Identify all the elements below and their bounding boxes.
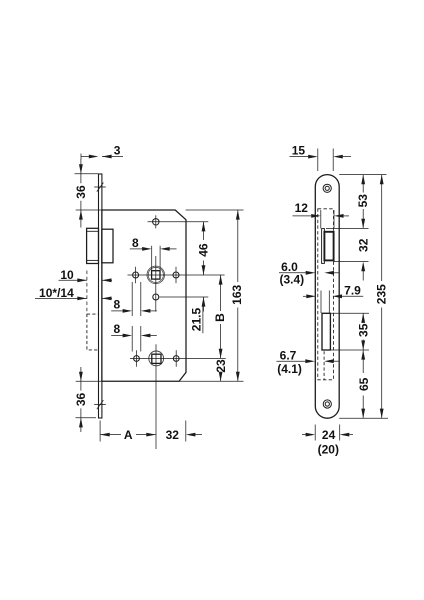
latch face front view: [324, 232, 333, 261]
svg-text:7.9: 7.9: [344, 284, 361, 298]
dim 7.9 underline: [342, 295, 363, 297]
plate edge screw mark bottom (slash): [97, 400, 104, 409]
svg-text:163: 163: [230, 284, 244, 304]
dim 10*/14 opposite line: [102, 297, 112, 299]
lower follower circle: [149, 351, 164, 366]
svg-text:A: A: [124, 428, 133, 442]
dim 163 line upper: [237, 210, 239, 282]
dim 8l arrow right-pointing: [123, 334, 133, 338]
lower follower vertical centerline extended to A dim: [155, 344, 157, 449]
dim 7.9 arrow left-pointing: [332, 294, 342, 298]
ext plate bottom: [339, 417, 388, 419]
dim 46 arrow up: [202, 222, 206, 232]
dim 15 line left: [290, 156, 309, 158]
ext 7.9 left: [320, 291, 322, 314]
underline of 21.5: [202, 306, 204, 334]
dim 36b line lower segment: [80, 408, 82, 417]
upper follower inner circle: [148, 267, 163, 282]
latch bevel strip front view: [322, 229, 325, 264]
dim 12 line left: [293, 215, 312, 217]
dim 15 arrow left-pointing: [333, 155, 343, 159]
ext 24 right tick: [339, 425, 341, 441]
dim 6.0 line right: [334, 272, 339, 274]
dim 6.0 arrow right-pointing: [306, 271, 316, 275]
lower hole horizontal ext for 21.5: [159, 296, 208, 298]
dim 6.0 arrow left-pointing: [324, 271, 334, 275]
dim 36t arrow down: [79, 164, 83, 174]
dim 36b line upper segment: [80, 381, 82, 390]
dim 6.7 arrow left-pointing: [324, 359, 334, 363]
dim 235 line lower: [381, 308, 383, 419]
faceplate front view outline: [315, 175, 339, 419]
dim 46 line lower: [203, 261, 205, 275]
dim 8l line right: [150, 335, 156, 337]
dim 12 line right: [344, 215, 349, 217]
svg-text:10*/14: 10*/14: [39, 286, 74, 300]
dim 6.7 arrow right-pointing: [305, 359, 315, 363]
dim 8t arrow right-pointing: [142, 247, 152, 251]
case bottom ext left: [76, 380, 102, 382]
lock case hidden dashed front view: [318, 209, 334, 380]
dim 21.5 arrow up: [202, 297, 206, 307]
svg-text:8: 8: [113, 322, 120, 336]
deadbolt slot front view: [322, 313, 330, 350]
svg-text:53: 53: [356, 194, 370, 208]
dim 65 arrow down: [361, 409, 365, 419]
latch bolt head outside plate: [87, 228, 99, 263]
ext plate centerline bottom: [99, 421, 101, 442]
dim 36b arrow up: [79, 418, 83, 428]
svg-text:21.5: 21.5: [189, 307, 203, 331]
svg-text:10: 10: [60, 268, 74, 282]
case top ext left: [76, 209, 102, 211]
dim A arrow left: [100, 433, 110, 437]
dim A arrow right: [146, 433, 156, 437]
dim 65 arrow up: [361, 350, 365, 360]
dim 3 line right: [102, 156, 123, 158]
dim 10*/14 opposite arrow: [102, 297, 112, 301]
top hole horizontal centerline / ext for 46: [148, 221, 209, 223]
plate edge screw mark top (slash): [97, 183, 104, 192]
ext 12 right: [333, 210, 335, 228]
dim 8m line right: [150, 310, 156, 312]
dim A line left: [100, 434, 121, 436]
dim 235 arrow down: [380, 409, 384, 419]
dim 8t line right: [170, 248, 177, 250]
case bottom ext right: [179, 380, 244, 382]
upper right hole vertical tick: [175, 267, 177, 283]
8mm slot line pair2 right: [140, 326, 142, 352]
dim 32 lower tail: [362, 271, 364, 281]
top fixing hole: [153, 219, 159, 225]
dim 3 line left: [81, 156, 89, 158]
ext line plate top: [75, 173, 99, 175]
dim 8m arrow left-pointing: [141, 309, 151, 313]
latch bolt body inside case: [102, 229, 113, 263]
dim 6.7 leader line: [277, 360, 306, 362]
top hole vertical centerline: [155, 215, 157, 228]
dim 10 arrow right: [77, 278, 87, 282]
dim 10*/14 leader line: [35, 297, 87, 299]
dim 35 arrow down: [361, 340, 365, 350]
dim 21.5 tail: [203, 297, 205, 312]
svg-text:235: 235: [374, 284, 388, 304]
8mm slot line pair1 left: [131, 282, 133, 316]
ext latch top: [326, 227, 369, 229]
dim 24 arrow left-pointing: [340, 433, 350, 437]
dim 6.7 line right: [334, 360, 339, 362]
dim 36t line upper segment: [80, 174, 82, 183]
ext 8sq right: [159, 246, 161, 271]
lower left hole vertical tick: [136, 350, 138, 367]
upper right fixing hole: [173, 272, 179, 278]
dim 12 arrow left-pointing: [334, 214, 344, 218]
latch head bevel line top: [87, 230, 99, 232]
dim 8t arrow left-pointing: [160, 247, 170, 251]
dim 8m arrow right-pointing: [123, 309, 133, 313]
plate edge screw mark top (cross line): [94, 186, 106, 188]
dim 46 line upper: [203, 222, 205, 240]
ext latch bottom: [334, 261, 369, 263]
dim 36b arrow down: [79, 372, 83, 382]
ext dashed line latch face: [86, 271, 88, 314]
svg-text:12: 12: [295, 201, 309, 215]
faceplate edge view (3mm strip): [99, 174, 102, 418]
dim B arrow down: [219, 349, 223, 359]
dim 163 line lower: [237, 308, 239, 382]
top screw hole outer: [323, 184, 331, 192]
lower right hole vertical tick: [175, 350, 177, 367]
8mm slot line pair2 left: [131, 326, 133, 352]
dim 10 leader line: [59, 279, 87, 281]
dim 8l line left: [111, 335, 122, 337]
lock case outline with chamfered right corners: [102, 210, 186, 381]
dim 65 line upper: [362, 350, 364, 373]
ext 15 left: [317, 149, 319, 172]
dim 8l arrow left-pointing: [141, 334, 151, 338]
upper left hole vertical tick: [135, 267, 137, 283]
dim 23 line lower: [220, 373, 222, 381]
lower follower horizontal centerline / ext for B-23: [130, 357, 226, 359]
dim 6.0 leader line: [279, 272, 306, 274]
svg-text:46: 46: [197, 243, 211, 257]
dim 35 line lower: [362, 340, 364, 351]
deadbolt hidden dashed line: [323, 351, 325, 379]
deadbolt thrown position dashed: [87, 314, 99, 350]
dim 36b lower tail: [80, 418, 82, 432]
svg-text:35: 35: [357, 323, 371, 337]
svg-text:8: 8: [132, 236, 139, 250]
dim 8t line left: [130, 248, 142, 250]
svg-text:24: 24: [322, 428, 336, 442]
dim 163 arrow up: [236, 210, 240, 220]
svg-text:36: 36: [74, 185, 88, 199]
lower follower square: [152, 354, 161, 363]
dim 15 line right: [343, 156, 351, 158]
dim 24 line left: [302, 434, 306, 436]
svg-text:(3.4): (3.4): [279, 273, 304, 287]
dim 35 arrow up: [361, 313, 365, 323]
dim 235 arrow up: [380, 175, 384, 185]
dim 8m line left: [111, 310, 122, 312]
dim 3 arrow left: [89, 155, 99, 159]
top screw hole inner: [325, 186, 329, 190]
svg-text:32: 32: [357, 238, 371, 252]
svg-text:(4.1): (4.1): [277, 362, 302, 376]
dim 32 outside arrow: [186, 433, 196, 437]
lower left fixing hole: [134, 356, 140, 362]
dim 24 line right: [349, 434, 353, 436]
svg-text:15: 15: [292, 143, 306, 157]
bottom screw hole outer: [323, 400, 331, 408]
ext slot bottom: [330, 349, 369, 351]
dim 46 arrow down: [202, 265, 206, 275]
dim 10 opposite line: [102, 279, 112, 281]
dim 163 arrow down: [236, 372, 240, 382]
latch head bevel line bottom: [87, 259, 99, 261]
dim 36b upper tail: [80, 367, 82, 381]
ext case right edge bottom: [185, 421, 187, 442]
dim B line lower: [220, 324, 222, 358]
dim B arrow up: [219, 275, 223, 285]
svg-text:36: 36: [74, 393, 88, 407]
svg-text:23: 23: [214, 359, 228, 373]
upper follower outer circle: [147, 266, 165, 284]
bottom screw hole inner: [325, 402, 329, 406]
svg-text:32: 32: [166, 428, 180, 442]
dim 53 line upper: [362, 175, 364, 193]
dim 15 arrow right-pointing: [308, 155, 318, 159]
upper left fixing hole: [133, 272, 139, 278]
ext 24 left tick: [314, 425, 316, 441]
dim 36t line lower segment: [80, 201, 82, 210]
hole below upper follower: [153, 294, 159, 300]
dim 32 arrow up from below: [361, 262, 365, 272]
8mm slot line pair1 right: [140, 282, 142, 316]
dim 10*/14 arrow right: [77, 297, 87, 301]
svg-text:3: 3: [114, 144, 121, 158]
dim 7.9 arrow right-pointing: [306, 294, 316, 298]
case top ext right: [186, 209, 244, 211]
ext plate top: [339, 174, 386, 176]
dim 65 line lower: [362, 396, 364, 419]
dim 235 line upper: [381, 175, 383, 281]
plate edge screw mark bottom (cross line): [94, 404, 106, 406]
dim 53 line lower: [362, 209, 364, 228]
svg-text:B: B: [213, 313, 227, 322]
ext 12 left: [320, 210, 322, 228]
svg-text:6.7: 6.7: [280, 348, 297, 362]
dim 7.9 line left: [303, 295, 306, 297]
dim 36t arrow up: [79, 210, 83, 220]
dim 32 stub line: [195, 434, 202, 436]
svg-text:(20): (20): [318, 443, 339, 457]
ext slot top: [330, 312, 369, 314]
dim 3 arrow right: [102, 155, 112, 159]
dim A line right: [136, 434, 156, 436]
upper follower 8mm square: [152, 271, 160, 279]
dim 36t lower tail: [80, 210, 82, 228]
ext 7.9 right: [328, 291, 330, 314]
dim 24 arrow right-pointing: [306, 433, 316, 437]
upper follower horizontal centerline / ext for B: [128, 274, 225, 276]
dim 53 arrow up: [361, 175, 365, 185]
dim 53 arrow down (shared with 32): [361, 219, 365, 229]
dim 12 arrow right-pointing: [311, 214, 321, 218]
dim 36t upper tail: [80, 159, 82, 174]
dim 35 line upper: [362, 313, 364, 321]
svg-text:8: 8: [113, 298, 120, 312]
ext 15 right: [332, 149, 334, 172]
ext line plate bottom: [76, 417, 97, 419]
dim 10 opposite arrow: [102, 278, 112, 282]
lower right fixing hole: [173, 356, 179, 362]
ext 8sq left: [151, 246, 153, 271]
dim B line upper: [220, 275, 222, 311]
svg-text:65: 65: [357, 377, 371, 391]
dim 3 left tick: [80, 154, 82, 160]
dim 23 arrow down: [219, 372, 223, 382]
upper follower vertical centerline: [155, 256, 157, 312]
